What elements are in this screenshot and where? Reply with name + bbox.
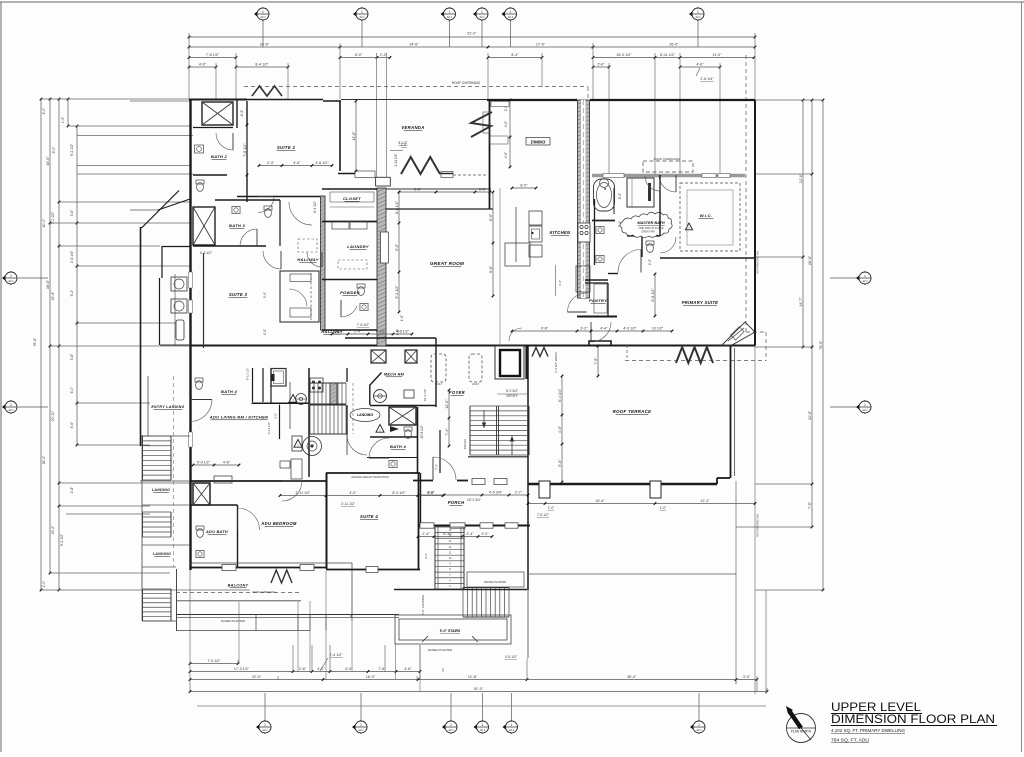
svg-text:1: 1: [449, 10, 451, 14]
wall foyer east: [527, 346, 529, 590]
svg-text:KITCHEN: KITCHEN: [550, 230, 571, 235]
wc walls: [627, 236, 660, 257]
extension line: [766, 688, 768, 692]
extension line: [59, 482, 193, 484]
roof overhang dashed line top: [244, 86, 588, 88]
svg-text:ADU LIVING RM / KITCHEN: ADU LIVING RM / KITCHEN: [209, 415, 268, 420]
extension line: [442, 668, 444, 672]
svg-text:6'-6": 6'-6": [70, 421, 74, 429]
dimension 2'-6": [592, 62, 611, 68]
grid line stem: [18, 277, 48, 279]
sheet border left: [0, 2, 2, 752]
extension line: [719, 63, 721, 175]
svg-text:24'-6": 24'-6": [409, 42, 419, 46]
bath4 sink: [389, 460, 397, 467]
bath4 door: [369, 438, 389, 458]
extension line: [526, 658, 528, 680]
svg-text:8'-0": 8'-0": [520, 183, 528, 187]
svg-text:4'-0": 4'-0": [42, 107, 46, 115]
mech rm east wall: [435, 338, 437, 407]
closet shelving: [330, 192, 374, 207]
terrace post 1: [539, 481, 550, 498]
svg-text:3'-6": 3'-6": [70, 209, 74, 217]
adu south windows: [222, 565, 314, 571]
firewall white core lane: [581, 100, 586, 298]
hallway big door arc: [289, 202, 312, 225]
extension line: [77, 165, 190, 167]
left wall window slot 1: [189, 272, 193, 288]
veranda south wall west: [338, 173, 356, 175]
hallway door 2: [307, 252, 322, 267]
adu sink: [196, 550, 204, 557]
master bath east wall: [659, 175, 661, 236]
svg-text:2'-6": 2'-6": [597, 62, 605, 66]
mech drain x-box 2: [405, 350, 417, 363]
porch dim row: [417, 532, 494, 538]
mech rm west wall: [369, 385, 371, 405]
stair upper walls: [309, 368, 347, 477]
window sills front wall: [472, 479, 507, 485]
svg-text:!: !: [379, 427, 380, 432]
grid line stem: [450, 693, 452, 721]
svg-text:3'-0": 3'-0": [743, 675, 751, 679]
adu dim row: [192, 460, 241, 466]
extension line: [755, 346, 812, 348]
svg-text:17'-3 1/2": 17'-3 1/2": [234, 667, 250, 671]
hallway dashed attic access: [298, 239, 317, 252]
grid line stem: [510, 21, 512, 48]
closet south wall: [322, 221, 377, 223]
adu cooktop: [171, 277, 187, 291]
wic shelving dashed: [680, 183, 740, 251]
svg-text:1: 1: [264, 723, 266, 727]
exterior wall top right wing: [590, 99, 755, 101]
svg-text:4'-0": 4'-0": [317, 667, 325, 671]
suite4 west wall: [326, 473, 328, 569]
svg-text:1: 1: [510, 10, 512, 14]
svg-text:9'-2": 9'-2": [70, 289, 74, 297]
fireplace corner: [722, 322, 755, 345]
svg-text:GREAT ROOM: GREAT ROOM: [430, 261, 464, 266]
extension line entry: [130, 209, 158, 211]
dining door: [645, 176, 660, 191]
adu north wall: [190, 480, 326, 482]
roof overhang dashed right stub: [765, 332, 767, 361]
room label PANTRY: [589, 298, 607, 303]
porch front window band: [418, 523, 530, 528]
svg-text:2'-11 1/2": 2'-11 1/2": [296, 491, 312, 495]
kitchen counter upper: [529, 211, 542, 225]
laundry south wall: [322, 279, 377, 281]
landing line 2: [142, 504, 190, 506]
extension line: [755, 99, 823, 101]
svg-text:1: 1: [10, 403, 12, 407]
svg-text:4'-0": 4'-0": [336, 329, 344, 333]
room label ROOF TERRACE: [613, 409, 652, 414]
svg-text:A2.1: A2.1: [862, 408, 868, 412]
planter bottom: [176, 630, 310, 632]
stair hatch piece: [330, 383, 337, 404]
svg-text:4'-0": 4'-0": [504, 121, 508, 127]
svg-text:9'-4": 9'-4": [263, 292, 267, 298]
grid bubble 1 top: [254, 7, 269, 21]
svg-text:VAULT: VAULT: [472, 383, 480, 386]
dim 5'-2 3/4 verify: [497, 389, 529, 398]
adu bath east wall: [237, 505, 239, 567]
adu kitchen north wall: [162, 246, 190, 248]
primary suite door: [618, 250, 641, 273]
svg-text:6'-0": 6'-0": [355, 53, 363, 57]
svg-text:7'-8 1/2": 7'-8 1/2": [243, 143, 247, 157]
bath4 wall: [439, 430, 441, 473]
kitchen counter front edge: [515, 207, 517, 262]
svg-text:12'-2": 12'-2": [700, 499, 710, 503]
svg-text:16'-0 1/2": 16'-0 1/2": [616, 53, 632, 57]
landing shaft x-box: [389, 407, 416, 425]
svg-text:9'-2 1/2": 9'-2 1/2": [70, 143, 74, 156]
svg-text:1'-3": 1'-3": [61, 116, 65, 124]
plan north symbol: [786, 706, 816, 743]
dimension 4'-6": [679, 62, 722, 68]
svg-text:36'-2": 36'-2": [42, 455, 46, 464]
svg-text:15'-8 1/2": 15'-8 1/2": [420, 425, 424, 438]
svg-text:4'-3 1/2": 4'-3 1/2": [200, 251, 213, 255]
room label LANDING: [153, 552, 171, 556]
wall mid horizontal: [190, 345, 755, 347]
svg-text:8'-6 1/2": 8'-6 1/2": [395, 200, 399, 214]
svg-text:14'-7": 14'-7": [799, 297, 803, 307]
svg-text:2'-6": 2'-6": [299, 667, 307, 671]
svg-text:2'-4": 2'-4": [267, 161, 275, 165]
svg-text:22'-0": 22'-0": [252, 675, 262, 679]
extension line: [59, 505, 150, 507]
grid bubble 3 top: [441, 7, 456, 21]
bath4 upper walls: [367, 407, 418, 473]
kitchen counter left of range: [505, 243, 530, 266]
interior stair: [310, 405, 346, 434]
svg-text:DINING: DINING: [531, 139, 546, 144]
grid bubble 1 bottom: [256, 720, 271, 734]
adu shaft x-box: [193, 483, 210, 505]
shaft x-box bath3: [193, 207, 215, 245]
svg-text:7'-5 1/2": 7'-5 1/2": [206, 53, 220, 57]
svg-text:DIMENSION FLOOR PLAN: DIMENSION FLOOR PLAN: [831, 712, 995, 726]
svg-text:LANDING: LANDING: [357, 413, 374, 417]
svg-text:5'-6": 5'-6": [414, 187, 422, 191]
room label SUITE 3: [229, 292, 248, 297]
extension line: [235, 53, 237, 99]
stair rail inner right: [460, 527, 462, 589]
svg-text:3'-2": 3'-2": [580, 326, 588, 330]
svg-text:76'-8": 76'-8": [33, 337, 37, 346]
laundry appliances: [332, 221, 349, 229]
mech rm north wall: [345, 337, 436, 339]
grid bubble A left: [2, 271, 17, 285]
svg-text:BALCONY: BALCONY: [228, 584, 249, 588]
master bath south wall: [585, 279, 608, 281]
warning triangle master: [685, 223, 692, 230]
svg-text:16'-4": 16'-4": [595, 499, 605, 503]
svg-text:5'-0" LANDING: 5'-0" LANDING: [421, 594, 425, 615]
dim row pantry: [511, 326, 674, 332]
elevator right wall: [525, 346, 527, 379]
vault dashed 2: [469, 354, 482, 386]
terrace west dim: [558, 375, 564, 484]
kitchen sink cabinet: [529, 226, 542, 242]
title UPPER LEVEL: [831, 700, 997, 743]
terrace post 2: [650, 481, 661, 498]
svg-text:NO PARKING W/L: NO PARKING W/L: [756, 250, 760, 274]
extension line: [765, 590, 767, 694]
adu interior wall stub: [279, 405, 281, 439]
roof overhang dashed line right: [745, 55, 747, 332]
svg-text:SUITE 2: SUITE 2: [277, 145, 296, 150]
svg-text:1'-0": 1'-0": [548, 506, 555, 510]
grid line stem: [481, 21, 483, 48]
svg-text:2'-4": 2'-4": [354, 329, 362, 333]
svg-text:28'-0": 28'-0": [808, 255, 812, 265]
balcony zigzag: [271, 570, 292, 583]
hatched wall laundry: [377, 188, 386, 346]
adu dryer circle: [303, 437, 322, 456]
svg-text:6'-0": 6'-0": [427, 490, 435, 494]
svg-text:7'-6 1/2": 7'-6 1/2": [357, 323, 370, 327]
grid bubble 2 top: [353, 7, 368, 21]
extension line terrace: [735, 481, 737, 684]
bath3 south wall: [193, 245, 266, 247]
vault dashed 1: [431, 354, 446, 386]
svg-text:4'-0": 4'-0": [349, 491, 357, 495]
hallway door 1: [258, 197, 274, 213]
svg-text:4'-6": 4'-6": [223, 460, 231, 464]
bath3 north wall: [215, 199, 280, 201]
adu fan circle: [296, 394, 307, 405]
svg-text:!: !: [292, 397, 293, 402]
svg-text:BATH 2: BATH 2: [211, 154, 227, 159]
room label BATH 3: [229, 223, 245, 228]
svg-text:2'-0": 2'-0": [42, 580, 46, 588]
grid bubble 2 bottom: [352, 720, 367, 734]
svg-text:BATH 3: BATH 3: [229, 223, 245, 228]
terrace parapet south: [528, 483, 717, 485]
room label FOYER: [449, 390, 465, 395]
wic inner rect: [687, 190, 733, 245]
terrace parapet east: [730, 346, 732, 478]
great room east dim: [489, 191, 495, 298]
svg-text:51'-0": 51'-0": [474, 687, 484, 691]
svg-text:CLOSET: CLOSET: [343, 196, 361, 201]
closet west wall hatched: [321, 196, 326, 330]
powder south wall: [322, 329, 377, 331]
svg-text:2'-2": 2'-2": [648, 259, 652, 265]
adu vent: [214, 476, 232, 483]
suite3 closet: [280, 271, 319, 322]
grid line stem: [511, 693, 513, 721]
svg-text:ROOF OVERHANG: ROOF OVERHANG: [654, 157, 681, 161]
window zigzag primary suite: [676, 347, 713, 363]
left dimension rotated texts: [33, 107, 74, 588]
svg-text:5'-6": 5'-6": [479, 187, 487, 191]
laundry counter: [350, 221, 367, 229]
svg-text:RAISED PLANTER: RAISED PLANTER: [428, 648, 452, 652]
svg-text:ROOF OVERHANG: ROOF OVERHANG: [452, 81, 481, 85]
extension line: [755, 483, 812, 485]
svg-text:2'-4": 2'-4": [422, 532, 430, 536]
svg-text:7'-6": 7'-6": [435, 464, 439, 470]
svg-text:3'-2": 3'-2": [424, 553, 428, 559]
exterior wall left main: [189, 212, 191, 570]
entry landing south: [140, 435, 190, 437]
stair bottom: [142, 620, 176, 622]
svg-text:GREAT RM: GREAT RM: [641, 230, 654, 234]
svg-text:4'-0": 4'-0": [263, 329, 267, 335]
room label MECH RM: [384, 373, 405, 377]
veranda south wall mid: [440, 173, 453, 175]
svg-text:9'-6": 9'-6": [541, 326, 549, 330]
suite2 dim row: [258, 161, 334, 167]
planter edge line: [527, 590, 529, 658]
grid bubble 6 bottom: [690, 720, 705, 734]
extension line: [736, 526, 812, 528]
room label BATH 4: [390, 444, 406, 449]
svg-text:5'-9 1/2": 5'-9 1/2": [197, 460, 211, 464]
adu counter end 2: [160, 344, 190, 346]
svg-text:VAULT: VAULT: [435, 383, 443, 386]
planter inner right: [467, 572, 524, 587]
foyer dim v: [445, 389, 451, 448]
roof overhang dashed jog: [746, 331, 766, 333]
svg-text:LAUNDRY: LAUNDRY: [347, 244, 369, 249]
master shower: [627, 178, 654, 207]
bath2 wall lower: [193, 174, 227, 176]
svg-text:6'-6": 6'-6": [558, 459, 562, 467]
left wall window slot 3: [189, 432, 193, 447]
extension line: [541, 53, 543, 87]
landing pointer triangle: [390, 426, 399, 432]
room label VERANDA: [401, 125, 424, 130]
svg-text:2'-4": 2'-4": [466, 532, 474, 536]
grid line stem: [697, 21, 699, 48]
grid line stem: [830, 277, 858, 279]
svg-text:1: 1: [864, 403, 866, 407]
svg-text:8'-11 1/2": 8'-11 1/2": [246, 368, 250, 380]
svg-text:RAILING: RAILING: [463, 439, 467, 449]
svg-text:9'-2 1/2": 9'-2 1/2": [60, 533, 64, 546]
grid bubble 3 bottom: [442, 720, 457, 734]
hall wall stub: [608, 273, 618, 275]
room label HALLWAY: [321, 329, 342, 334]
warning triangle 1: [289, 395, 297, 403]
svg-text:6'-4": 6'-4": [618, 193, 622, 199]
pantry south wall jog: [589, 341, 611, 346]
master vanity wall: [594, 199, 596, 265]
svg-text:4'-6": 4'-6": [404, 667, 412, 671]
suite4 east wall: [418, 473, 420, 569]
left dim line 1: [40, 98, 43, 592]
room label KITCHEN: [550, 230, 571, 235]
primary hall dim: [651, 273, 657, 318]
exterior wall top dining: [487, 99, 577, 101]
sheet border right: [1021, 2, 1023, 752]
landing line 4: [142, 566, 176, 568]
svg-text:LANDING: LANDING: [152, 488, 170, 492]
grid bubble B right: [856, 400, 871, 414]
grid line stem: [360, 693, 362, 721]
extension line: [50, 345, 190, 347]
adu bedroom door: [282, 481, 302, 501]
svg-text:W.I.C.: W.I.C.: [700, 213, 713, 218]
master bath sink 2: [596, 255, 604, 262]
svg-text:1: 1: [698, 723, 700, 727]
extension line: [189, 570, 191, 692]
exterior wall jog: [323, 100, 341, 102]
svg-text:16'-2": 16'-2": [51, 525, 55, 534]
svg-text:A2.1: A2.1: [696, 728, 702, 732]
svg-text:ROOF OVERHANG: ROOF OVERHANG: [252, 590, 275, 594]
room label ADU BEDROOM: [260, 521, 297, 526]
svg-text:2'-8": 2'-8": [70, 486, 74, 494]
svg-text:3'-0": 3'-0": [481, 532, 489, 536]
svg-text:A2.1: A2.1: [358, 728, 364, 732]
grid line stem: [698, 693, 700, 721]
svg-text:12'-0": 12'-0": [445, 399, 449, 409]
stair edge: [141, 480, 143, 512]
grid bubble 4 top: [473, 7, 488, 21]
svg-text:4'-0": 4'-0": [504, 152, 508, 158]
svg-text:3'-6": 3'-6": [274, 413, 278, 419]
extension line: [592, 43, 594, 100]
svg-text:5'-0": 5'-0": [52, 146, 56, 154]
bath3 sink: [232, 206, 240, 213]
suite2 west wall: [246, 101, 248, 202]
veranda top edge: [341, 99, 487, 101]
kitchen counter lower: [529, 245, 542, 257]
svg-text:17'-0": 17'-0": [536, 42, 546, 46]
grid bubble A right: [856, 271, 871, 285]
adu toilet: [196, 526, 204, 537]
kitchen dim 3'-4 rotated: [556, 265, 563, 296]
svg-text:1: 1: [262, 10, 264, 14]
svg-text:1: 1: [697, 10, 699, 14]
svg-text:5'-0" STAIRS: 5'-0" STAIRS: [440, 629, 461, 633]
bath2 sink: [195, 145, 204, 153]
roof overhang dashed line bottom right: [625, 360, 766, 362]
terrace lower extension line: [527, 573, 736, 575]
balcony stair: [143, 589, 172, 621]
wall veranda east: [489, 100, 491, 209]
extension line: [679, 53, 681, 175]
svg-text:5'-2 3/4" VERIFY: 5'-2 3/4" VERIFY: [554, 351, 558, 372]
left dim line 4: [67, 98, 70, 128]
adu washer box: [292, 436, 302, 451]
adu fridge: [176, 320, 184, 340]
extension line: [237, 660, 239, 664]
extension line: [654, 53, 656, 175]
extension line: [756, 676, 758, 692]
svg-text:1: 1: [361, 10, 363, 14]
svg-text:12'-8": 12'-8": [468, 675, 478, 679]
planter divider lines: [256, 615, 351, 631]
pantry door: [591, 322, 611, 342]
room label CLOSET: [343, 196, 361, 201]
svg-text:764 SQ. FT. ADU: 764 SQ. FT. ADU: [831, 738, 869, 743]
svg-text:16'-0": 16'-0": [366, 675, 376, 679]
extension line: [77, 402, 150, 404]
mech rm angled wall: [370, 373, 382, 386]
svg-text:1'-0": 1'-0": [401, 143, 407, 147]
svg-text:8'-4": 8'-4": [511, 53, 519, 57]
dim bottom row 2: [189, 667, 422, 673]
